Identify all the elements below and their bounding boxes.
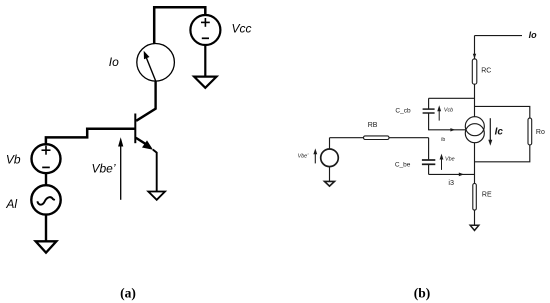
wire C_cb vertical top xyxy=(428,98,430,108)
wire C_be vertical top xyxy=(428,138,430,160)
arrow Vbe xyxy=(440,154,444,170)
current source Ic (two circles) xyxy=(465,117,484,143)
transistor Q1 base bar xyxy=(134,114,136,144)
voltage source Vb xyxy=(32,144,61,173)
svg-text:Io: Io xyxy=(109,55,119,69)
wire i3 xyxy=(429,173,475,175)
ground (emitter) xyxy=(148,192,165,200)
capacitor C_be xyxy=(422,160,435,164)
arrowhead i3 xyxy=(459,173,464,177)
svg-text:Vb: Vb xyxy=(6,153,21,167)
ground (Vbe' source) xyxy=(325,181,335,186)
svg-text:Al: Al xyxy=(5,197,17,211)
wire Ro bottom xyxy=(475,145,530,162)
svg-text:RC: RC xyxy=(481,68,491,75)
wire ib xyxy=(429,129,466,131)
current probe Io xyxy=(137,44,175,82)
ground (RE) xyxy=(470,225,479,230)
svg-text:Vcb: Vcb xyxy=(444,108,453,114)
svg-text:(b): (b) xyxy=(414,285,431,300)
transistor Q1 emitter with arrow xyxy=(136,138,153,150)
wire AC source to ground xyxy=(45,214,47,241)
Vbe' arrow xyxy=(118,137,123,200)
svg-text:C_be: C_be xyxy=(395,161,411,168)
svg-text:Ic: Ic xyxy=(495,127,504,138)
voltage source Vcc xyxy=(190,15,220,45)
wire top to RC xyxy=(474,36,476,59)
resistor RE xyxy=(473,184,477,211)
wire probe to collector xyxy=(136,81,155,121)
source Vbe' xyxy=(321,149,339,167)
resistor RB xyxy=(364,136,390,140)
arrow Vcb xyxy=(437,105,441,120)
wire RE to ground xyxy=(474,210,476,225)
svg-text:(a): (a) xyxy=(120,285,136,300)
ground (Al source) xyxy=(36,241,57,252)
svg-text:C_cb: C_cb xyxy=(395,108,411,115)
AC source Al xyxy=(31,185,60,214)
arrow beside Vbe' xyxy=(313,148,317,163)
capacitor C_cb xyxy=(423,109,435,113)
svg-text:Io: Io xyxy=(529,30,538,40)
wire Vb to AC source xyxy=(45,173,47,185)
wire RB net xyxy=(330,137,429,139)
wire collector-top to Vcc top xyxy=(154,7,205,44)
ground (Vcc) xyxy=(194,77,216,88)
wire node to C_cb top xyxy=(429,97,475,99)
svg-text:RB: RB xyxy=(368,122,378,129)
wire Io top xyxy=(475,35,523,37)
wire source bottom to RE xyxy=(474,143,476,184)
wire Vcc to ground xyxy=(204,45,206,76)
resistor Ro xyxy=(528,118,532,145)
wire Vbe' source top xyxy=(329,138,331,149)
svg-text:Vbe’: Vbe’ xyxy=(91,162,115,176)
svg-text:ib: ib xyxy=(441,137,445,143)
wire Ro top xyxy=(475,106,530,118)
wire C_cb vertical bottom xyxy=(428,113,430,130)
arrowhead into RC xyxy=(473,54,476,59)
svg-text:i3: i3 xyxy=(448,178,454,187)
base wire from Vb to base xyxy=(46,129,135,145)
wire C_be vertical bottom xyxy=(428,165,430,175)
arrowhead ib xyxy=(450,128,455,131)
svg-text:Vbe’: Vbe’ xyxy=(298,154,310,160)
wire emitter to ground xyxy=(153,150,157,192)
wire RC to node xyxy=(474,84,476,117)
svg-text:Vcc: Vcc xyxy=(231,22,251,36)
svg-text:Ro: Ro xyxy=(536,129,545,136)
probe needle xyxy=(144,51,156,82)
arrow Ic xyxy=(488,118,492,146)
svg-text:RE: RE xyxy=(482,192,492,199)
resistor RC xyxy=(472,59,477,84)
wire Vbe' source bottom xyxy=(329,167,331,182)
svg-text:Vbe: Vbe xyxy=(445,156,455,162)
